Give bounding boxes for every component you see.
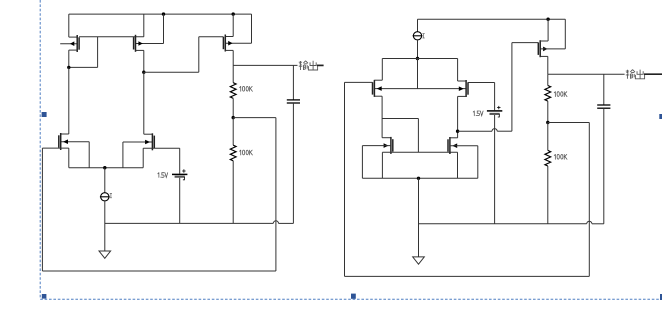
wire left rail right circuit xyxy=(344,82,346,276)
selection handle right-middle xyxy=(659,114,662,119)
label B1 1.5V xyxy=(158,173,168,178)
capacitor C1 xyxy=(287,100,300,103)
wire M8 gate lead xyxy=(362,146,391,179)
wire M4 gate drop xyxy=(88,142,90,168)
wire R1 top lead xyxy=(232,65,234,82)
selection handle bottom-left xyxy=(42,294,47,299)
wire current source I1 bottom lead xyxy=(104,201,106,251)
wire M7 drain drop xyxy=(458,59,467,82)
wire R2 top lead xyxy=(232,118,234,146)
label B1 plus xyxy=(182,169,185,172)
wire M7-source link to M10 bulk xyxy=(458,43,539,132)
wire M10 gate from rail end xyxy=(540,19,565,49)
wire battery B2 bottom lead xyxy=(494,115,496,224)
wire capacitor C2 drop xyxy=(603,74,605,105)
wire M2 gate from rail xyxy=(136,14,164,43)
wire ground drop right circuit xyxy=(418,178,420,257)
current source I1 xyxy=(100,193,110,201)
wire output node left circuit xyxy=(233,64,297,66)
transistor M2 xyxy=(134,35,143,52)
junction dot R3 bottom xyxy=(546,121,549,124)
transistor M9 xyxy=(448,137,457,154)
wire R1-node feedback right/down xyxy=(233,118,276,271)
label R3 100K xyxy=(554,92,567,97)
transistor M6 xyxy=(373,80,382,97)
wire M10 source to output node xyxy=(540,56,548,74)
wire output dash after label left xyxy=(317,64,324,66)
battery B2 1.5V xyxy=(487,111,502,114)
wire I2 to gate line xyxy=(417,59,419,89)
wire link M2 source node to M3 bulk xyxy=(144,37,224,72)
wire R4 bottom lead xyxy=(547,166,549,224)
label I1 xyxy=(110,193,112,197)
wire capacitor C1 drop xyxy=(292,65,294,100)
resistor R4 xyxy=(545,150,551,166)
wire M1/M2 drain-bulk link xyxy=(79,36,144,38)
junction dot M1 source node xyxy=(67,66,70,69)
wire current source I1 top lead xyxy=(104,168,106,193)
label 输出 left (drawn glyphs) xyxy=(299,61,318,70)
junction dot I2 bus xyxy=(416,57,419,60)
wire bias bus right circuit xyxy=(419,223,604,225)
wire M3 gate from rail end xyxy=(225,14,251,43)
label R2 100K xyxy=(240,150,253,155)
wire M3 drain drop xyxy=(225,14,233,36)
wire M1 source to M4 drain xyxy=(61,67,69,134)
label B2 1.5V xyxy=(473,111,483,116)
junction dot rail-M3 drain xyxy=(232,12,235,15)
wire C2 bottom to bus xyxy=(603,108,605,224)
wire battery B1 bottom lead xyxy=(179,178,181,224)
wire I2 bottom lead xyxy=(417,40,419,59)
wire M4 source to rail and common node xyxy=(42,148,68,168)
wire left rail xyxy=(41,148,43,271)
wire M6-M7 gate line xyxy=(374,88,466,90)
capacitor C2 xyxy=(597,105,610,108)
label B2 minus tick xyxy=(498,114,500,117)
wire I2 top lead xyxy=(417,19,419,31)
wire gate box line bottom pair xyxy=(362,177,477,179)
junction dot R1 bottom xyxy=(232,116,235,119)
selection handle left-middle xyxy=(42,112,47,117)
wire R3-node link to right rail xyxy=(548,122,590,124)
wire R3 bottom lead xyxy=(547,101,549,122)
wire M6 bulk to left rail xyxy=(345,81,373,83)
ground symbol right circuit xyxy=(413,257,425,264)
wire battery B2 top lead xyxy=(494,83,496,111)
wire T-drop to M1 source node xyxy=(69,37,98,68)
wire M2 drain drop xyxy=(143,14,145,37)
wire M7 bulk to battery B2 xyxy=(468,82,495,84)
wire top rail right circuit xyxy=(418,18,566,20)
wire M9 gate lead xyxy=(450,146,478,179)
wire R4 top lead xyxy=(547,123,549,151)
resistor R2 xyxy=(230,145,236,161)
page dashed boundary left edge xyxy=(39,0,41,298)
transistor M3 xyxy=(223,35,232,52)
wire M3 source to output node xyxy=(225,50,233,65)
wire M1 gate lead xyxy=(60,43,77,45)
current source I2 xyxy=(413,32,423,40)
wire R1 bottom lead xyxy=(232,98,234,117)
wire M2 source xyxy=(136,50,144,72)
label R4 100K xyxy=(554,154,567,159)
junction dot rail-M2 gate xyxy=(162,12,165,15)
selection handle bottom-middle xyxy=(351,294,356,299)
transistor M1 xyxy=(70,35,79,52)
transistor M4 xyxy=(59,133,68,150)
wire hop over vertical at bias bus xyxy=(273,221,278,224)
wire M5 gate rise xyxy=(123,142,152,168)
label 输出 right (drawn glyphs) xyxy=(626,70,645,79)
wire M5 source to battery xyxy=(143,148,180,168)
wire M1 drain drop xyxy=(69,14,77,37)
wire M4 gate lead xyxy=(61,141,89,143)
junction dot M2 source node xyxy=(142,71,145,74)
page dashed boundary bottom edge xyxy=(40,298,662,300)
wire M10 drain drop xyxy=(540,19,548,41)
transistor M10 xyxy=(538,40,547,57)
wire output dash after label right xyxy=(644,73,662,75)
label R1 100K xyxy=(240,86,253,91)
wire M6-source branch to pair source line xyxy=(382,119,418,153)
wire bottom rail right circuit xyxy=(345,275,590,277)
wire battery B1 top lead xyxy=(179,148,181,174)
transistor M7 xyxy=(459,80,468,97)
ground symbol left circuit xyxy=(99,251,111,258)
junction dot ground node xyxy=(417,177,420,180)
battery B1 1.5V xyxy=(172,174,187,176)
wire bias bus left circuit xyxy=(105,222,294,224)
wire M7 source chain to M9 drain xyxy=(450,96,466,137)
wire common source node line xyxy=(69,167,143,169)
label B2 plus xyxy=(497,106,500,109)
resistor R1 xyxy=(230,83,236,99)
wire M1 source xyxy=(69,50,77,67)
wire M6 drain drop xyxy=(374,59,382,81)
selection handle bottom-right xyxy=(660,294,662,300)
wire output node right circuit xyxy=(548,73,625,75)
wire bottom rail left circuit xyxy=(42,270,276,272)
junction dot M7 source node xyxy=(456,130,459,133)
wire hop over battery at link xyxy=(492,129,497,132)
label I2 xyxy=(423,34,425,38)
label B1 minus tick xyxy=(183,177,185,180)
junction dot rail-M10 drain xyxy=(546,18,549,21)
wire C1 bottom to bus xyxy=(292,103,294,223)
junction dot common node xyxy=(103,166,106,169)
transistor M8 xyxy=(384,137,393,154)
wire right rail xyxy=(588,123,590,277)
resistor R3 xyxy=(545,86,551,102)
wire R3 top lead xyxy=(547,74,549,85)
transistor M5 xyxy=(145,133,154,150)
wire R2 bottom lead xyxy=(232,161,234,224)
wire hop over right rail at bus xyxy=(587,221,592,224)
wire top rail VDD left circuit xyxy=(69,13,252,15)
wire drain bus right circuit xyxy=(382,58,457,60)
wire M6 source chain to M8 drain xyxy=(374,96,391,138)
wire M8/M9 common source line xyxy=(382,152,457,178)
wire M2 source to M5 drain xyxy=(144,72,153,134)
